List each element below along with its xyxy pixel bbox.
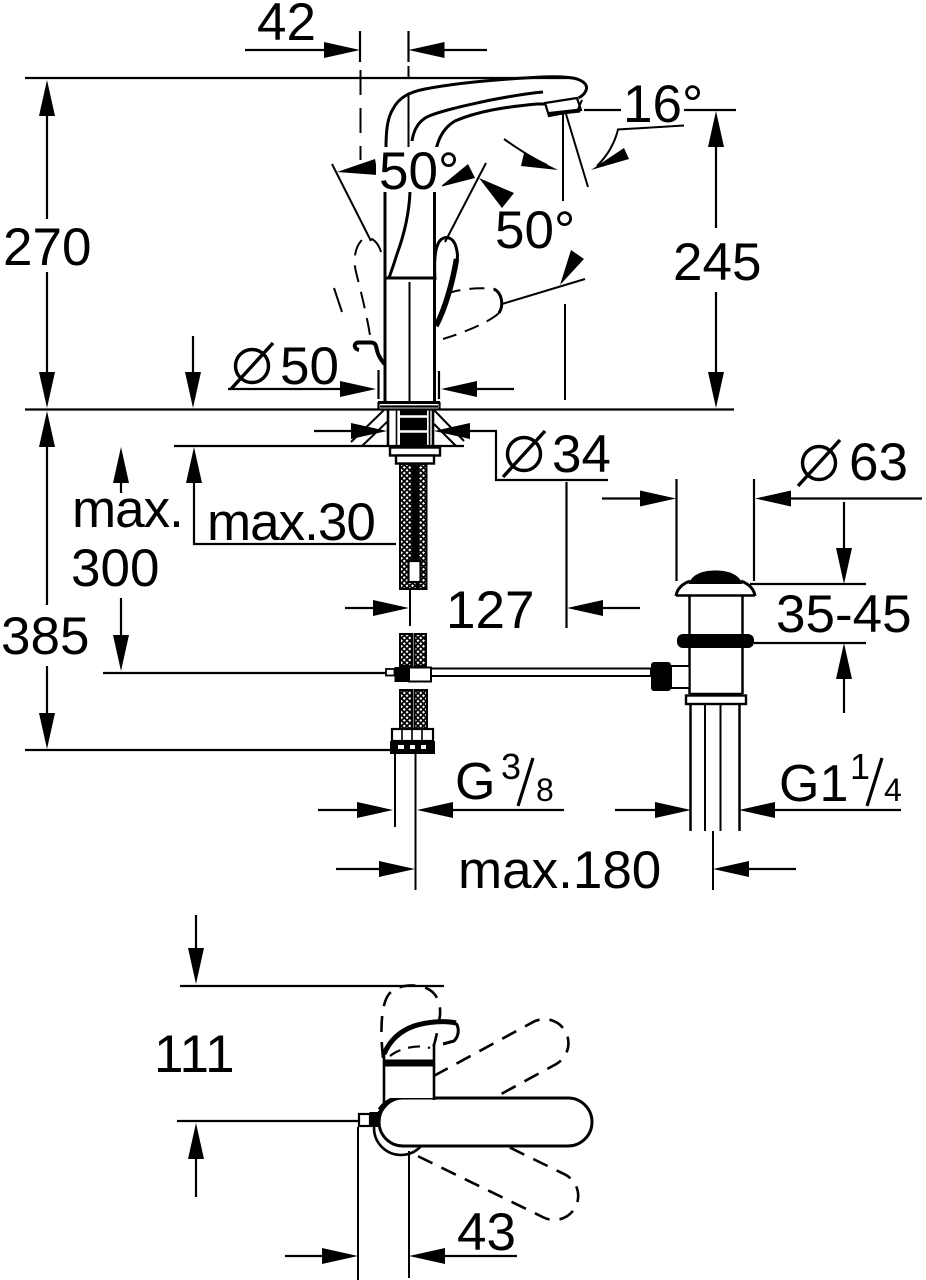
deck top line (countertop) [25,408,734,410]
aerator in plan [359,1114,370,1126]
handle right edge [433,1044,436,1100]
threaded shank in deck [387,410,390,447]
50deg no.1 label [376,147,442,192]
cartridge centerline below joint [409,282,411,402]
dashed swung spout up-right [367,1011,577,1155]
vertical line from spout outlet [562,114,564,201]
slanted 16deg line [566,114,588,187]
shank locknut below deck [390,448,440,456]
spout top outline (curve1) [386,77,587,148]
50deg angle no.1 right leg [445,163,486,242]
max300 bottom reference line (rod level) [103,672,386,674]
base flange [378,401,440,404]
spout underside (curve3) [435,104,547,156]
dim 43 [285,1127,517,1280]
dashed lever right cap [494,289,502,313]
svg-text:8: 8 [536,772,554,808]
dim 111 [154,915,235,1197]
handle left edge [383,1054,386,1104]
bottom reference line (hose end) [25,749,392,751]
dimension 270 [3,80,91,408]
G3/8 reference lines [394,754,396,827]
D34 label [503,425,611,484]
flexible hoses upper [400,464,417,589]
dashed swung spout down-right [374,1091,586,1228]
dimension 245 [673,111,761,408]
svg-text:3: 3 [501,746,521,787]
handle inner dashed arc [390,1046,430,1056]
waste flange [676,581,690,596]
svg-text:max.180: max.180 [458,841,661,900]
handle white fill [385,1046,433,1098]
spout stadium in plan [379,1098,592,1146]
dimension max.30 leader [185,336,396,552]
dashed thumb (lever tilted left) [355,238,381,342]
svg-text:111: 111 [154,1025,235,1084]
svg-text:4: 4 [884,772,902,808]
svg-text:42: 42 [257,0,316,52]
D50 label [231,337,339,396]
dashed swung spout up-left [381,985,440,1058]
dimension 42 [245,0,487,62]
dim D63 [602,433,922,581]
svg-text:50°: 50° [495,201,575,260]
solid thumb (lever end, right) [435,238,458,280]
svg-text:50: 50 [280,337,339,396]
thin rod continuation [409,589,411,626]
body circle in plan [374,1101,428,1155]
faucet body right wall [433,192,436,402]
dashed arcs lower lever position [334,288,342,312]
50deg angle no.2 leg [502,279,585,304]
svg-text:127: 127 [446,581,534,640]
plan reference line spout level [177,1120,362,1122]
body joint line [385,277,435,280]
dashed lever bottom [443,313,499,339]
svg-text:385: 385 [1,607,89,666]
dimension 385 [1,411,89,749]
svg-text:63: 63 [849,433,908,492]
top reference line (spout height) [25,77,575,79]
inner waterway curve below text [389,192,410,278]
waste tailpipe [689,704,692,831]
dim 35-45 [750,502,912,713]
svg-text:1: 1 [850,746,870,787]
dimension 16 deg [504,75,736,400]
svg-text:16°: 16° [623,75,703,134]
dim D50 arrows [228,388,340,390]
dashed line x=360 below tick [360,70,362,160]
dim 127 [345,482,640,640]
waste body [688,648,691,694]
faucet body left wall [384,192,387,402]
dim D50 ticks [377,370,379,399]
handle in plan: top swoosh [384,1022,456,1054]
50deg angle no.1 left leg [332,164,371,241]
pull rod inside [412,464,417,560]
waste seal ring [677,634,754,648]
horizontal pop-up rod [386,669,395,676]
pop-up rod knob at rear [355,343,385,365]
waste neck [688,596,691,635]
plan reference line top [180,985,444,987]
dim G3/8 [318,746,564,818]
dashed lever (tilted right) top [446,288,494,294]
deck bottom line [174,445,464,447]
dim G1 1/4 [615,746,902,818]
svg-text:34: 34 [552,425,611,484]
deck hatching [351,410,384,442]
dim D34 arrows at shank [314,430,351,432]
hoses mid segment [400,634,412,666]
svg-text:300: 300 [71,539,159,598]
centerline dash x=408.5 [408,66,410,84]
aerator tip [545,98,581,116]
svg-text:50°: 50° [379,142,459,201]
svg-text:43: 43 [457,1203,516,1262]
waste coupling [690,693,743,696]
svg-text:max.30: max.30 [207,493,375,552]
svg-text:270: 270 [3,218,91,277]
hose end fitting [392,729,433,741]
dim max.180 [336,841,796,900]
hoses lower segment [400,690,412,729]
svg-text:max.: max. [72,480,183,539]
spout lever edge (curve2) [412,92,543,141]
svg-text:35-45: 35-45 [776,585,912,644]
svg-text:G1: G1 [779,755,848,813]
dimension max.300 [71,447,183,671]
pop-up waste: plug dome [689,571,743,585]
handle bottom bar [383,1060,434,1067]
svg-text:G: G [455,753,495,811]
waste side port [651,662,671,691]
svg-text:245: 245 [673,233,761,292]
